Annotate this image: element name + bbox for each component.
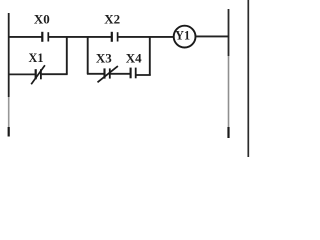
junction J2 vertical (X3/X4 branch down from rung1) bbox=[87, 37, 89, 74]
svg-text:X2: X2 bbox=[104, 12, 120, 27]
junction J3 vertical (branch up to rung1 after X2) bbox=[149, 37, 151, 76]
wire: rung2 X1 to junction J1 bbox=[42, 73, 68, 75]
wire: rung1 X0 to X2 bbox=[49, 36, 111, 38]
page border line (right edge) bbox=[247, 0, 249, 157]
svg-text:X0: X0 bbox=[34, 12, 50, 27]
svg-text:X3: X3 bbox=[96, 50, 112, 65]
contact X4 (normally open) bbox=[131, 68, 136, 79]
wire: rung1 left rail to X0 bbox=[8, 36, 42, 38]
contact X2 (normally open) bbox=[112, 32, 118, 42]
contact X0 (normally open) bbox=[42, 32, 48, 42]
svg-text:X1: X1 bbox=[29, 51, 44, 65]
wire: rung2 J2 to X3 bbox=[87, 73, 104, 75]
right power rail bbox=[228, 9, 230, 138]
wire: rung2 left rail to X1 bbox=[8, 73, 35, 75]
wire: rung2 X3 to X4 bbox=[111, 73, 131, 75]
contact X3 (normally closed) bbox=[98, 66, 118, 82]
coil Y1 bbox=[174, 26, 196, 48]
left power rail bbox=[8, 13, 10, 137]
svg-text:X4: X4 bbox=[126, 50, 142, 65]
wire: coil Y1 to right rail bbox=[196, 35, 229, 37]
svg-text:Y1: Y1 bbox=[175, 29, 190, 43]
junction J1 vertical (X1 branch up to rung1) bbox=[66, 37, 68, 75]
contact X1 (normally closed) bbox=[31, 65, 45, 84]
wire: rung1 X2 to coil Y1 bbox=[118, 36, 173, 38]
wire: rung2 X4 to junction J3 bbox=[136, 74, 150, 76]
